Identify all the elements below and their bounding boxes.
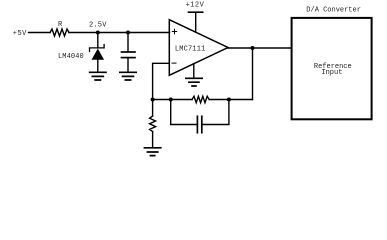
svg-text:2.5V: 2.5V xyxy=(89,22,107,30)
svg-text:LM4040: LM4040 xyxy=(58,53,84,61)
svg-text:LMC7111: LMC7111 xyxy=(175,46,206,54)
svg-text:+12V: +12V xyxy=(186,2,205,10)
svg-text:Input: Input xyxy=(321,69,342,77)
svg-text:+5V: +5V xyxy=(13,30,27,38)
svg-text:D/A Converter: D/A Converter xyxy=(306,6,361,14)
